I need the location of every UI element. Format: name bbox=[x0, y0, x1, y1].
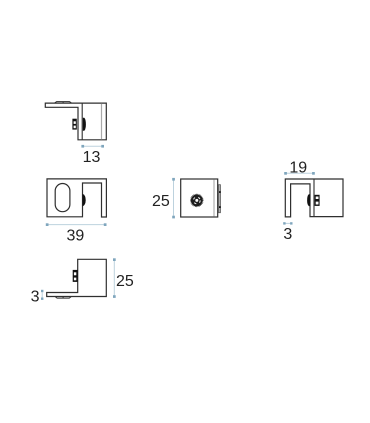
view4 outline bbox=[47, 259, 107, 296]
view5 dimension 3 bbox=[283, 222, 292, 243]
view2: front view middle-left bbox=[47, 179, 106, 217]
view5 dimension 19 bbox=[284, 160, 315, 177]
view5 outline U channel + block bbox=[285, 179, 343, 217]
view3 square body bbox=[181, 179, 218, 217]
view3: back square view center bbox=[181, 179, 218, 217]
view1 outline bbox=[45, 103, 106, 140]
view4 dimension 25 bbox=[113, 258, 134, 298]
view2 screw bulge bbox=[83, 194, 86, 207]
view2 dimension 39 bbox=[46, 223, 107, 244]
view1 inner gray line bbox=[101, 104, 103, 140]
view1 inner vertical line B bbox=[81, 103, 83, 140]
view3 knurled screw head bbox=[191, 194, 203, 206]
view3 side strip bbox=[218, 185, 220, 213]
svg-text:25: 25 bbox=[152, 193, 170, 210]
view4 gasket pad under arm bbox=[55, 297, 71, 299]
view2 outline with bottom slot bbox=[47, 179, 106, 217]
view3 dimension 25 bbox=[152, 178, 175, 219]
view4: side view bottom-left bbox=[47, 259, 107, 298]
view3 strip notches bbox=[219, 191, 221, 193]
view1 screw head (left of leg) bbox=[72, 119, 76, 130]
view5 screw head bbox=[315, 195, 320, 206]
view1: side view top-left bbox=[45, 102, 106, 140]
view4 screw head bbox=[73, 270, 78, 282]
svg-text:39: 39 bbox=[67, 227, 85, 244]
view5 separator line bbox=[313, 179, 315, 217]
svg-text:13: 13 bbox=[83, 149, 101, 166]
view1 dimension 13 bbox=[81, 145, 104, 166]
view4 dimension 3 bbox=[31, 289, 44, 306]
view5: side view right bbox=[285, 179, 343, 217]
svg-text:3: 3 bbox=[31, 289, 40, 306]
view3 inner gray line bbox=[213, 180, 215, 217]
svg-text:19: 19 bbox=[289, 160, 307, 177]
svg-text:25: 25 bbox=[116, 273, 134, 290]
view5 screw pad bulge bbox=[307, 194, 310, 206]
view1 screw pad bulge bbox=[83, 118, 86, 131]
svg-text:3: 3 bbox=[283, 226, 292, 243]
view2 oval slot bbox=[55, 184, 70, 212]
view1 gasket bump on arm bbox=[55, 102, 72, 103]
